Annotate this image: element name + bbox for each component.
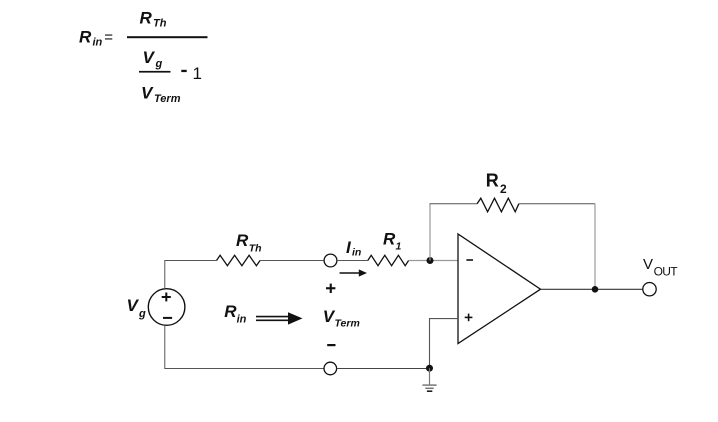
svg-text:V: V — [143, 48, 156, 67]
junction dot output node — [592, 286, 599, 293]
bottom terminal open circle — [324, 362, 337, 375]
equation minus one — [181, 70, 186, 72]
wire Vg bottom lead — [165, 325, 324, 368]
svg-text:R: R — [383, 229, 396, 248]
svg-text:Th: Th — [153, 18, 167, 30]
label Vg — [127, 296, 147, 320]
label VTerm — [323, 307, 360, 330]
svg-text:R: R — [79, 27, 92, 46]
wire feedback top left — [430, 203, 478, 205]
junction dot ground node — [426, 365, 433, 372]
equation sub-numerator Vg — [143, 48, 163, 70]
svg-text:V: V — [643, 256, 653, 273]
svg-text:1: 1 — [193, 64, 202, 83]
label Iin — [346, 238, 361, 258]
wire feedback riser — [429, 204, 431, 261]
label minus below VTerm — [327, 344, 335, 346]
junction dot inverting input node — [427, 257, 434, 264]
svg-text:Term: Term — [154, 93, 181, 105]
wire bottom terminal to ground node — [337, 368, 430, 370]
svg-text:in: in — [352, 246, 361, 258]
wire Vg top lead — [165, 261, 217, 289]
output terminal open circle VOUT — [643, 283, 656, 296]
label VOUT — [643, 256, 678, 279]
svg-text:V: V — [141, 83, 154, 102]
resistor R2 — [477, 198, 519, 212]
svg-text:=: = — [104, 29, 113, 46]
svg-text:in: in — [93, 37, 103, 49]
svg-text:Term: Term — [335, 317, 360, 329]
svg-text:g: g — [138, 308, 146, 320]
svg-text:Th: Th — [249, 243, 262, 255]
input terminal open circle (top) — [324, 254, 337, 267]
wire RTh to input terminal — [260, 260, 324, 262]
svg-text:R: R — [236, 231, 249, 250]
svg-text:1: 1 — [396, 240, 402, 252]
svg-text:OUT: OUT — [654, 264, 679, 278]
wire op-amp output — [541, 288, 644, 290]
resistor RTh — [217, 255, 261, 265]
svg-text:V: V — [127, 296, 140, 315]
implication double arrow — [256, 312, 303, 324]
equation main fraction bar — [127, 36, 208, 38]
wire R1 to inverting node — [409, 260, 458, 262]
voltage source Vg — [148, 289, 185, 326]
label plus above VTerm — [326, 287, 335, 289]
equation sub-denominator VTerm — [141, 83, 181, 105]
svg-text:in: in — [237, 313, 247, 325]
equation numerator RTh — [140, 8, 167, 29]
resistor R1 — [368, 255, 409, 265]
svg-text:R: R — [224, 302, 237, 321]
svg-text:g: g — [155, 58, 163, 70]
label RTh — [236, 231, 262, 255]
ground — [422, 368, 436, 391]
wire non-inverting input — [430, 319, 459, 369]
op-amp U1 — [458, 234, 541, 344]
equation small fraction bar — [139, 71, 171, 73]
label R2 — [486, 171, 507, 196]
equation Rin = RTh / (Vg/VTerm - 1) — [79, 8, 208, 105]
label Rin — [224, 302, 246, 325]
svg-text:2: 2 — [500, 182, 507, 196]
svg-text:R: R — [140, 8, 153, 27]
equation term Rin= — [79, 27, 113, 48]
svg-text:R: R — [486, 171, 499, 191]
wire feedback dropper to output — [594, 204, 596, 290]
current arrow Iin — [340, 269, 368, 276]
wire terminal to R1 — [337, 260, 368, 262]
label R1 — [383, 229, 402, 252]
wire feedback top right — [519, 203, 595, 205]
